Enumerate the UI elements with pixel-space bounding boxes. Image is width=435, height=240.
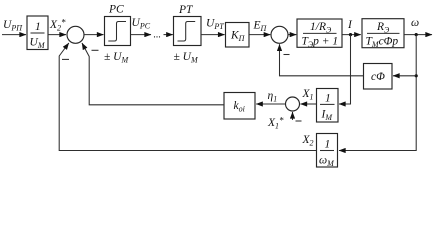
node junction dot on omega vertical <box>415 74 418 77</box>
wire to armature block <box>288 34 296 36</box>
summing junction 2 <box>271 26 288 43</box>
svg-text:...: ... <box>154 30 162 41</box>
node minus at summing junction 2 <box>284 54 290 56</box>
wire input arrow <box>2 34 26 36</box>
wire X1* input stub <box>292 112 294 120</box>
summing junction 3 (current cutoff) <box>286 97 300 111</box>
svg-text:ω: ω <box>411 17 419 29</box>
wire eta to koi block <box>256 103 285 105</box>
node minus left of summing junction 1 <box>62 58 69 60</box>
node minus right of summing junction 1 <box>92 49 99 51</box>
wire to cF block <box>393 75 416 77</box>
node I junction dot <box>349 33 352 36</box>
wire I branch down to 1/IM block <box>339 35 351 104</box>
block cF (EMF feedback) <box>364 64 393 90</box>
wire koi output to summing junction 1 <box>82 43 224 105</box>
wire to summing junction <box>48 34 66 36</box>
svg-text:PT: PT <box>178 4 194 16</box>
wire X1 to summing junction 3 <box>301 103 317 105</box>
block 1/IM <box>317 89 339 123</box>
wire omega output <box>404 34 432 36</box>
block 1/U_M <box>27 16 48 50</box>
wire omega feedback vertical <box>339 35 416 151</box>
node omega junction dot <box>415 33 418 36</box>
block PT (current regulator with saturation) <box>174 17 202 46</box>
wire to PT <box>164 34 173 36</box>
summing junction 1 <box>67 26 84 43</box>
block armature 1/Re over Tep+1 <box>297 19 342 49</box>
svg-text:1: 1 <box>325 139 331 151</box>
wire X2 feedback to summing junction 1 <box>59 43 316 151</box>
svg-text:TМcΦp: TМcΦp <box>366 36 399 50</box>
wire I to mech block <box>342 34 361 36</box>
svg-text:1: 1 <box>35 21 41 33</box>
wire PT to Kp <box>201 34 225 36</box>
wire cF output to summing junction 2 <box>280 44 364 76</box>
svg-text:PC: PC <box>108 4 124 16</box>
wire PC output <box>131 34 152 36</box>
svg-text:1: 1 <box>325 93 331 105</box>
wire Kp to summing junction 2 <box>249 34 270 36</box>
block K_P converter <box>226 23 250 48</box>
svg-text:TЭp + 1: TЭp + 1 <box>302 36 339 50</box>
block mech Re over TMcФp <box>362 19 404 49</box>
block 1/omegaM <box>317 134 338 169</box>
svg-text:cΦ: cΦ <box>371 71 385 83</box>
node minus at summing junction 3 <box>296 120 302 122</box>
block koi (cutoff gain) <box>224 93 255 120</box>
block PC (speed regulator with saturation) <box>105 17 131 46</box>
wire to PC <box>84 34 104 36</box>
